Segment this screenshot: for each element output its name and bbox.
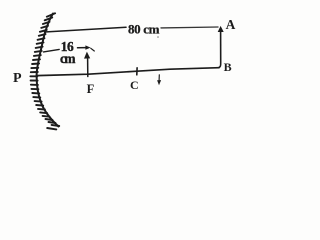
svg-text:C: C xyxy=(130,78,139,92)
object line AB pointing up xyxy=(219,31,220,67)
object arrow at F pointing up xyxy=(87,57,89,77)
80 cm dimension line left segment xyxy=(45,27,127,32)
tick at C xyxy=(136,68,138,75)
principal axis P to B xyxy=(37,68,220,76)
faint speck under 80 cm xyxy=(157,36,159,38)
small slanted tail after arrowhead xyxy=(91,48,95,51)
small right arrow after 16 xyxy=(78,47,87,49)
svg-text:80 cm: 80 cm xyxy=(128,21,160,36)
concave mirror face xyxy=(37,14,59,127)
svg-text:B: B xyxy=(224,60,232,74)
80 cm dimension line right segment xyxy=(161,26,218,29)
small image arrow pointing down near C xyxy=(158,75,160,80)
svg-text:F: F xyxy=(87,82,95,96)
paper background xyxy=(0,0,256,144)
16 cm dimension line from mirror xyxy=(44,49,60,52)
svg-text:cm: cm xyxy=(60,51,76,66)
mirror hatching xyxy=(30,13,59,129)
svg-text:P: P xyxy=(13,71,22,86)
svg-text:A: A xyxy=(226,17,236,32)
